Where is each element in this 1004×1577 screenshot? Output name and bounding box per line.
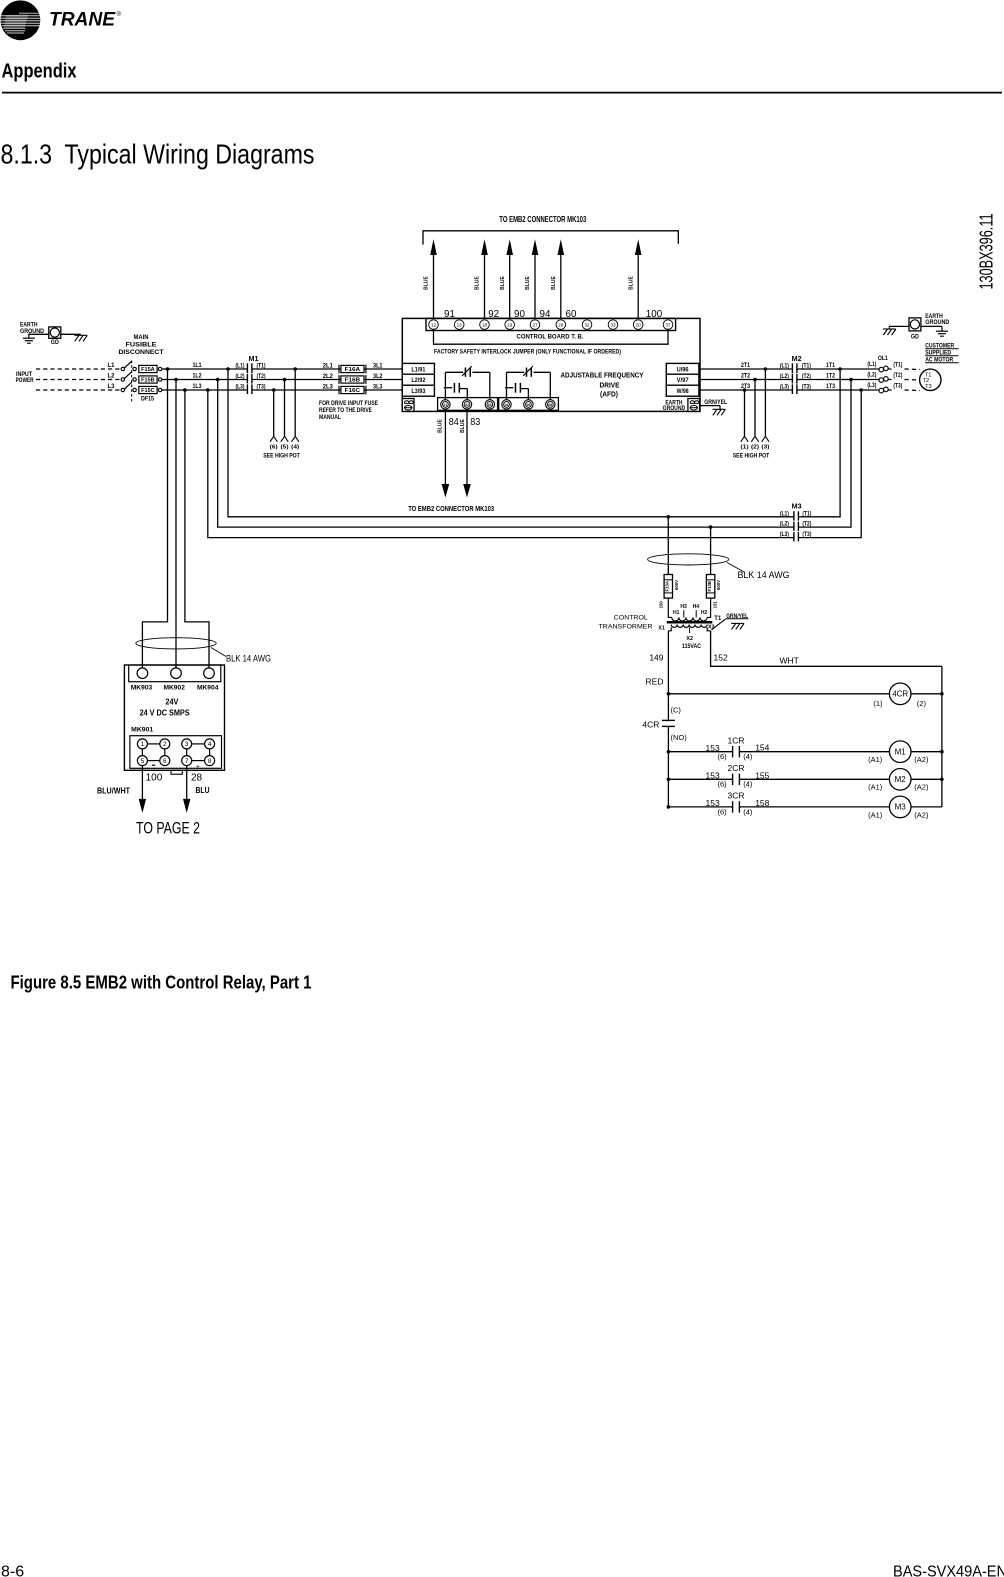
chassis ground symbol (AFD right) [713, 409, 726, 415]
wire X3 to chassis [712, 619, 726, 630]
svg-text:1T3: 1T3 [826, 384, 836, 390]
wire OL1 to motor (dashed) [905, 379, 921, 382]
node 1L3/SMPS tap [183, 388, 187, 392]
svg-text:L3/93: L3/93 [411, 388, 425, 395]
svg-text:05: 05 [527, 403, 531, 407]
svg-text:MK903: MK903 [131, 685, 153, 692]
SMPS output terminal strip MK901 [130, 736, 222, 769]
input power line L1 (dashed) [36, 368, 121, 370]
label CONTROL TRANSFORMER [599, 614, 653, 630]
svg-text:6: 6 [163, 758, 167, 765]
disconnect linkage (dashed) [131, 361, 133, 404]
svg-text:19: 19 [507, 322, 513, 327]
svg-text:F16B: F16B [345, 378, 361, 384]
wire bundle ellipse (SMPS) [136, 638, 216, 649]
svg-text:(AFD): (AFD) [600, 390, 618, 399]
AFD terminal 05 [524, 400, 533, 409]
node rail/M3 rung [667, 805, 671, 809]
wire 1L3 to SMPS MK904 [185, 390, 209, 669]
svg-text:(L1): (L1) [867, 362, 876, 368]
svg-text:F15B: F15B [141, 378, 155, 384]
contact 4CR (C)-(NO) [642, 694, 687, 807]
fuse F13B [706, 575, 721, 599]
svg-text:H4: H4 [693, 604, 700, 610]
AFD terminal 03 [485, 400, 494, 409]
polarity marks [152, 763, 200, 770]
svg-text:M2: M2 [895, 775, 907, 784]
node 1L1/SMPS tap [166, 367, 170, 371]
labels MK903 MK902 MK904 [131, 685, 219, 692]
svg-text:(A1): (A1) [868, 755, 883, 764]
svg-text:5: 5 [141, 758, 145, 765]
AFD terminal 01 [441, 400, 450, 409]
svg-text:01: 01 [444, 403, 448, 407]
AFD relay NC contact (01-03) [445, 366, 489, 400]
wire OL1 to motor (dashed) [905, 389, 921, 392]
svg-text:24 V DC SMPS: 24 V DC SMPS [140, 709, 190, 718]
disconnect switch L2 [108, 372, 132, 381]
svg-text:3L2: 3L2 [373, 374, 383, 380]
svg-text:FUSIBLE: FUSIBLE [126, 342, 157, 348]
contactor M2 [780, 356, 811, 394]
wire 1L1 to SMPS MK903 [142, 369, 167, 669]
wire GD to chassis [61, 333, 81, 335]
svg-text:(L2): (L2) [780, 374, 789, 380]
label INPUT POWER [16, 371, 34, 384]
wire chassis to GD (right) [889, 325, 909, 327]
SMPS terminal 1 [137, 739, 147, 749]
svg-text:1T1: 1T1 [826, 363, 836, 369]
SMPS bottom tab [171, 770, 182, 774]
svg-text:BLUE: BLUE [551, 276, 557, 290]
SMPS terminal 4 [205, 739, 215, 749]
svg-text:1L3: 1L3 [193, 384, 203, 390]
svg-text:L2: L2 [108, 374, 116, 380]
svg-text:X2: X2 [686, 636, 693, 642]
svg-text:83: 83 [470, 416, 480, 428]
wire M3 (T2) to 1T2 [798, 380, 851, 528]
svg-text:DF15: DF15 [141, 395, 154, 402]
svg-text:(L2): (L2) [867, 373, 876, 379]
wire OL1 to motor (dashed) [905, 368, 921, 371]
node 1T3/M3 tap [859, 388, 863, 392]
label EARTH GROUND (AFD right) [663, 399, 686, 412]
AFD input terminal L2/92 [402, 374, 434, 385]
svg-text:BLUE: BLUE [438, 419, 444, 433]
input power line L3 (dashed) [36, 389, 121, 391]
relay coil M1 [739, 741, 942, 764]
high-pot test lead (2) [751, 380, 759, 451]
svg-text:4: 4 [208, 741, 212, 748]
svg-text:GD: GD [911, 335, 920, 341]
control board terminal 18 [480, 320, 490, 330]
chassis ground symbol (top right) [883, 326, 896, 335]
SMPS terminal MK904 [204, 668, 215, 679]
wire PE to chassis [700, 405, 720, 407]
svg-text:F15C: F15C [141, 388, 155, 394]
label ADJUSTABLE FREQUENCY DRIVE (AFD) [561, 370, 644, 398]
node rail/M1 rung [667, 750, 671, 754]
svg-text:2T1: 2T1 [741, 363, 751, 369]
svg-text:L3: L3 [108, 384, 116, 390]
svg-text:BLUE: BLUE [525, 276, 531, 290]
svg-text:TRANSFORMER: TRANSFORMER [599, 624, 653, 631]
svg-text:TO EMB2 CONNECTOR MK103: TO EMB2 CONNECTOR MK103 [408, 504, 494, 513]
svg-text:(T3): (T3) [893, 383, 902, 389]
svg-text:M3: M3 [792, 503, 802, 510]
label FOR DRIVE INPUT FUSE note [319, 400, 379, 421]
contact 3CR [668, 791, 769, 817]
wire tap to fuse F13A [667, 517, 669, 575]
wire 1L3 to M3 (L3) [208, 390, 794, 538]
SMPS terminal 7 [182, 756, 192, 766]
svg-text:20: 20 [636, 322, 642, 327]
svg-text:WHT: WHT [780, 656, 799, 666]
wire to EMB2 connector (terminal 29 / wire 60) [551, 239, 577, 320]
svg-text:SEE HIGH POT: SEE HIGH POT [733, 452, 770, 459]
svg-text:(6): (6) [718, 752, 728, 761]
relay coil M2 [739, 769, 942, 792]
control board terminal 37 [663, 320, 673, 330]
leader BLK 14 AWG (transformer) [727, 563, 744, 573]
node high-pot tap (3) [764, 367, 768, 371]
earth ground symbol (left) [23, 333, 35, 343]
svg-text:32: 32 [584, 322, 590, 327]
AFD relay terminal strip 04-06 [499, 398, 559, 411]
svg-text:151: 151 [713, 601, 718, 609]
label GRN/YEL (transformer) [726, 613, 749, 620]
wire 1L1 to M3 (L1) [228, 369, 794, 517]
svg-text:V/97: V/97 [677, 377, 690, 384]
right ladder rail [941, 666, 943, 807]
wire 152 / WHT [711, 631, 942, 667]
high-pot test lead (4) [291, 369, 299, 451]
AFD terminal 02 [462, 400, 471, 409]
adjustable frequency drive AFD enclosure [402, 318, 700, 411]
svg-text:(L3): (L3) [867, 383, 876, 389]
svg-text:BLK 14 AWG: BLK 14 AWG [226, 654, 271, 665]
label MAIN FUSIBLE DISCONNECT [119, 335, 164, 356]
wire to EMB2 connector (terminal 12 / wire 91) [424, 239, 455, 320]
control board terminal 32 [582, 320, 592, 330]
bracket to EMB2 connector [423, 231, 678, 245]
svg-text:MK901: MK901 [131, 727, 153, 734]
ground detector GD (left) [49, 327, 61, 346]
wire 84 to EMB2 connector [438, 409, 459, 497]
SMPS terminal 8 [205, 756, 215, 766]
svg-text:GROUND: GROUND [663, 405, 686, 412]
node high-pot tap (5) [283, 378, 287, 382]
svg-text:03: 03 [488, 403, 492, 407]
svg-text:2L1: 2L1 [323, 364, 334, 370]
SMPS terminal MK902 [171, 668, 182, 679]
svg-text:(L2): (L2) [236, 374, 245, 380]
disconnect switch L1 [108, 361, 132, 370]
svg-text:(2): (2) [917, 699, 927, 708]
contact 1CR [668, 735, 769, 761]
wire M3 (T3) to 1T3 [798, 390, 861, 538]
svg-text:(A1): (A1) [868, 783, 883, 792]
svg-text:(1): (1) [873, 699, 883, 708]
svg-text:GD: GD [51, 340, 60, 346]
svg-text:130BX396.11: 130BX396.11 [977, 214, 997, 290]
svg-text:M1: M1 [249, 356, 259, 363]
wire 1L2 to SMPS MK902 [175, 380, 177, 670]
node 1T1/M3 tap [838, 367, 842, 371]
SMPS input terminal strip [129, 665, 221, 682]
svg-text:(6): (6) [270, 445, 278, 451]
svg-text:(2): (2) [751, 445, 759, 451]
wire to EMB2 connector (terminal 20 / wire 100) [628, 239, 662, 320]
wire 2L2 / fuse F16B / wire 3L2 [252, 374, 402, 384]
svg-text:152: 152 [714, 653, 728, 663]
svg-text:600V: 600V [716, 580, 721, 590]
control board terminal 19 [505, 320, 515, 330]
wire M3 (T1) to 1T1 [798, 369, 840, 517]
svg-text:F15A: F15A [141, 367, 155, 373]
node rail right 4CR [940, 692, 944, 696]
control board terminal 12 [429, 320, 439, 330]
svg-text:Appendix: Appendix [2, 61, 77, 83]
node 1L1/M3 tap [226, 367, 230, 371]
node high-pot tap (1) [743, 388, 747, 392]
control transformer T1 [658, 598, 722, 650]
wire bundle ellipse (transformer) [648, 554, 729, 565]
svg-text:(L1): (L1) [780, 364, 789, 370]
svg-text:MANUAL: MANUAL [319, 414, 341, 421]
high-pot test lead (1) [741, 390, 749, 451]
svg-text:®: ® [117, 11, 122, 18]
svg-text:8: 8 [208, 758, 212, 765]
svg-text:(NO): (NO) [671, 733, 688, 742]
svg-text:(L3): (L3) [236, 385, 245, 391]
svg-text:M1: M1 [895, 748, 907, 757]
AFD terminal 06 [546, 400, 555, 409]
AFD relay terminal strip 01-03 [438, 398, 498, 411]
svg-text:28: 28 [191, 773, 203, 784]
wire GD to earth (right) [921, 325, 942, 327]
svg-text:RED: RED [646, 677, 664, 687]
label CUSTOMER SUPPLIED AC MOTOR [925, 342, 958, 363]
svg-text:(5): (5) [281, 445, 289, 451]
SMPS terminal links [142, 744, 209, 761]
contactor M3 [780, 503, 812, 541]
AFD output terminal W/98 [666, 385, 699, 396]
svg-text:(6): (6) [718, 780, 728, 789]
AFD terminal 04 [502, 400, 511, 409]
svg-text:2T2: 2T2 [741, 374, 751, 380]
svg-text:U/96: U/96 [677, 366, 690, 373]
SMPS terminal 6 [160, 756, 170, 766]
svg-text:(4): (4) [291, 445, 299, 451]
svg-text:BLU: BLU [196, 786, 210, 795]
fuse F15C [133, 386, 162, 394]
AFD PE terminal (bottom right) [688, 399, 700, 412]
AFD input terminal L1/91 [402, 363, 434, 374]
wire 1L2 to M3 (L2) [218, 380, 794, 528]
svg-text:84: 84 [449, 416, 459, 428]
svg-text:FACTORY SAFETY INTERLOCK JUMPE: FACTORY SAFETY INTERLOCK JUMPER (ONLY FU… [434, 348, 621, 355]
svg-text:29: 29 [558, 322, 564, 327]
svg-text:149: 149 [649, 653, 663, 663]
svg-text:CONTROL: CONTROL [614, 614, 648, 621]
svg-text:3: 3 [185, 741, 189, 748]
SMPS terminal 2 [160, 739, 170, 749]
svg-text:13: 13 [457, 322, 463, 327]
chassis ground symbol (left) [74, 335, 87, 341]
svg-text:F13A: F13A [665, 581, 670, 592]
wire 100 (BLU/WHT) to page 2 [97, 765, 163, 813]
svg-text:(4): (4) [743, 752, 753, 761]
wire 2T3 [699, 384, 793, 390]
svg-text:(T2): (T2) [893, 373, 902, 379]
control board terminal 29 [556, 320, 566, 330]
svg-text:BAS-SVX49A-EN: BAS-SVX49A-EN [893, 1564, 1004, 1577]
AFD output terminal V/97 [666, 374, 699, 385]
ground detector GD (right) [909, 318, 921, 341]
disconnect switch L3 [108, 382, 132, 391]
control board terminal 33 [608, 320, 618, 330]
svg-text:BLUE: BLUE [475, 276, 481, 290]
svg-text:BLUE: BLUE [460, 419, 466, 433]
svg-text:600V: 600V [674, 580, 679, 590]
node transformer tap H2 [709, 525, 713, 529]
svg-text:1CR: 1CR [727, 735, 744, 745]
node rail/4CR [667, 692, 671, 696]
svg-text:MAIN: MAIN [134, 335, 149, 341]
factory safety interlock jumper wire (terminal 12 to 37) [434, 329, 669, 344]
svg-text:3L3: 3L3 [373, 385, 383, 391]
svg-text:POWER: POWER [16, 377, 34, 384]
svg-text:2L2: 2L2 [323, 374, 334, 380]
svg-text:H3: H3 [680, 604, 687, 610]
node 1L2/SMPS tap [174, 378, 178, 382]
svg-text:M3: M3 [895, 803, 907, 812]
contact 2CR [668, 763, 769, 789]
svg-text:X1: X1 [658, 625, 665, 631]
svg-text:(L3): (L3) [780, 532, 789, 538]
svg-text:CONTROL BOARD T. B.: CONTROL BOARD T. B. [517, 333, 584, 340]
svg-text:BLU/WHT: BLU/WHT [97, 786, 130, 795]
svg-text:(1): (1) [741, 445, 749, 451]
label EARTH GROUND (right) [925, 313, 949, 326]
header rule [2, 92, 1002, 94]
SMPS terminal 5 [137, 756, 147, 766]
wire 2T1 [699, 363, 793, 369]
svg-text:115VAC: 115VAC [682, 643, 701, 650]
high-pot test lead (6) [270, 390, 278, 451]
svg-text:2: 2 [163, 741, 167, 748]
svg-text:33: 33 [610, 322, 616, 327]
fuse F13A [664, 575, 679, 599]
wire 1L3 [162, 384, 248, 390]
SMPS terminal 3 [182, 739, 192, 749]
svg-text:DRIVE: DRIVE [600, 380, 620, 389]
svg-text:T1: T1 [714, 616, 722, 622]
svg-text:1T2: 1T2 [826, 374, 836, 380]
svg-text:BLK 14 AWG: BLK 14 AWG [738, 570, 790, 581]
wire 149 (RED) [646, 631, 669, 694]
wire 83 to EMB2 connector [460, 409, 480, 497]
svg-text:ADJUSTABLE FREQUENCY: ADJUSTABLE FREQUENCY [561, 370, 644, 379]
motor M (customer supplied) [920, 369, 941, 390]
svg-text:4CR: 4CR [892, 690, 908, 699]
svg-text:27: 27 [532, 322, 538, 327]
svg-text:FOR DRIVE INPUT FUSE: FOR DRIVE INPUT FUSE [319, 400, 379, 407]
svg-text:06: 06 [548, 403, 552, 407]
svg-text:2L3: 2L3 [323, 385, 334, 391]
AFD input terminal L3/93 [402, 385, 434, 396]
svg-text:TO PAGE 2: TO PAGE 2 [136, 820, 200, 838]
svg-text:H2: H2 [701, 610, 708, 616]
svg-text:L1/91: L1/91 [411, 366, 425, 373]
svg-text:(A2): (A2) [914, 783, 929, 792]
fuse F15A [133, 365, 162, 373]
node 1L3/M3 tap [206, 388, 210, 392]
wire 1L2 [162, 374, 248, 380]
svg-text:(C): (C) [671, 705, 682, 714]
high-pot test lead (5) [281, 380, 289, 451]
svg-text:8-6: 8-6 [1, 1564, 24, 1577]
svg-text:(A2): (A2) [914, 755, 929, 764]
svg-text:02: 02 [465, 403, 469, 407]
node high-pot tap (6) [272, 388, 276, 392]
node high-pot tap (4) [293, 367, 297, 371]
svg-text:(T1): (T1) [893, 362, 902, 368]
SMPS terminal MK903 [137, 668, 148, 679]
wire to EMB2 connector (terminal 19 / wire 90) [500, 239, 526, 320]
svg-text:H1: H1 [673, 610, 680, 616]
input power line L2 (dashed) [36, 379, 121, 381]
svg-text:1L1: 1L1 [193, 363, 203, 369]
svg-text:W/98: W/98 [677, 388, 689, 395]
AFD relay NO contact (01-02) [444, 383, 468, 400]
svg-text:F13B: F13B [707, 581, 712, 592]
wire 2L1 / fuse F16A / wire 3L1 [252, 364, 402, 374]
node rail right M1 [940, 750, 944, 754]
svg-text:MK904: MK904 [197, 685, 219, 692]
svg-text:8.1.3 Typical Wiring Diagrams: 8.1.3 Typical Wiring Diagrams [1, 139, 315, 170]
wire 1L1 [162, 363, 248, 369]
svg-text:(A1): (A1) [868, 810, 883, 819]
wire 2T2 [699, 374, 793, 380]
wire to EMB2 connector (terminal 18 / wire 92) [475, 239, 499, 320]
svg-text:F16C: F16C [345, 388, 361, 394]
svg-text:L2/92: L2/92 [411, 377, 425, 384]
svg-text:T3: T3 [925, 384, 932, 390]
wire tap to fuse F13B [710, 527, 712, 574]
svg-text:4CR: 4CR [642, 720, 659, 730]
svg-text:Figure 8.5 EMB2 with Control R: Figure 8.5 EMB2 with Control Relay, Part… [11, 972, 312, 992]
svg-text:BLUE: BLUE [500, 276, 506, 290]
svg-text:T2: T2 [923, 378, 930, 384]
svg-text:OL1: OL1 [878, 355, 888, 362]
wire to EMB2 connector (terminal 27 / wire 94) [525, 239, 551, 320]
svg-text:L1: L1 [108, 363, 116, 369]
svg-text:BLUE: BLUE [628, 276, 634, 290]
svg-text:150: 150 [658, 601, 663, 609]
AFD relay NC contact (04-06) [507, 366, 551, 400]
leader BLK 14 AWG (SMPS) [211, 648, 226, 657]
svg-text:(6): (6) [718, 807, 728, 816]
svg-text:(A2): (A2) [914, 810, 929, 819]
svg-text:M2: M2 [792, 356, 802, 363]
wire 28 (BLU) to page 2 [183, 765, 210, 813]
svg-text:TRANE: TRANE [49, 10, 116, 31]
svg-text:(L1): (L1) [780, 511, 789, 517]
svg-text:+: + [196, 763, 200, 770]
AFD PE terminal (bottom left) [402, 399, 414, 412]
